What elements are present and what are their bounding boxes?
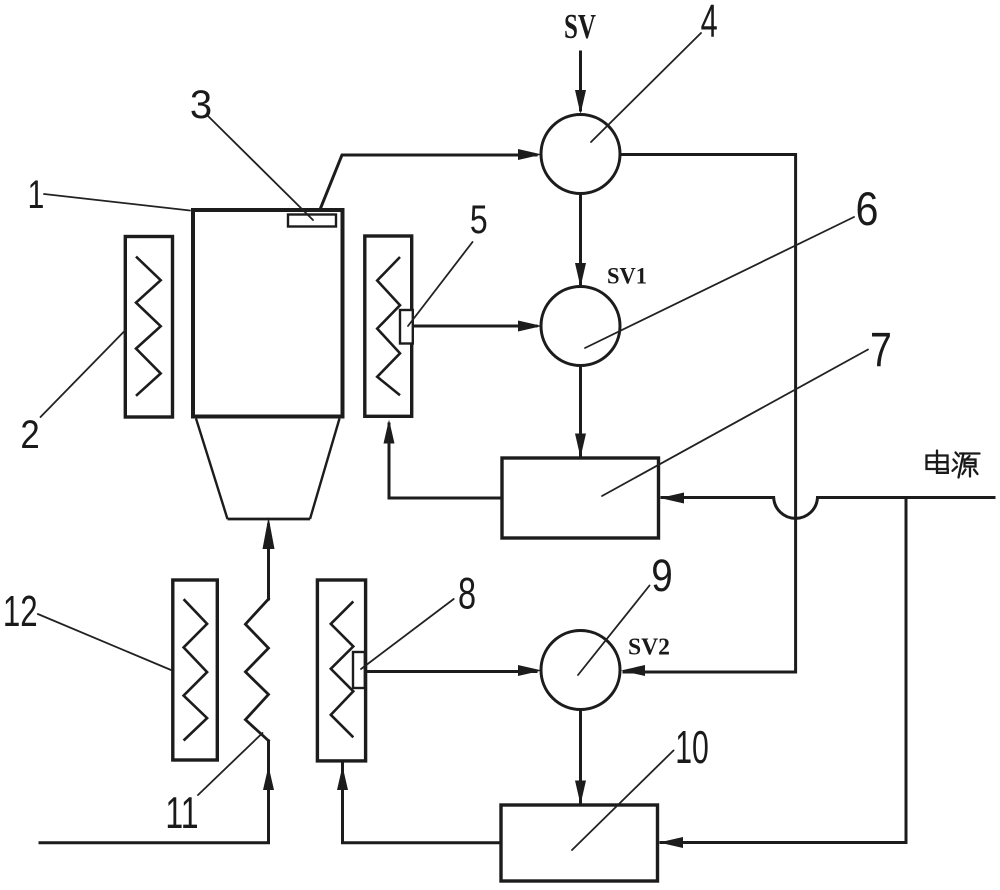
svg-text:2: 2 (20, 412, 39, 457)
svg-text:4: 4 (701, 0, 718, 47)
svg-text:5: 5 (470, 197, 488, 242)
svg-text:6: 6 (855, 184, 878, 236)
svg-text:9: 9 (651, 550, 673, 601)
svg-text:12: 12 (3, 587, 38, 637)
svg-text:8: 8 (458, 570, 476, 619)
svg-text:7: 7 (870, 323, 892, 377)
svg-text:SV: SV (564, 7, 596, 46)
svg-text:11: 11 (165, 789, 198, 838)
svg-text:SV1: SV1 (607, 264, 647, 290)
svg-text:3: 3 (190, 83, 212, 127)
svg-text:1: 1 (28, 173, 45, 217)
svg-text:SV2: SV2 (628, 635, 670, 661)
svg-text:10: 10 (675, 723, 709, 774)
